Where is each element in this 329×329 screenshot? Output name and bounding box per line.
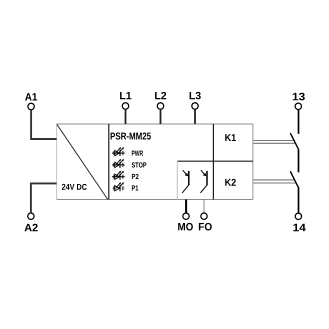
LED P2: [112, 171, 125, 180]
label 13: [293, 93, 305, 101]
terminal FO: [201, 213, 207, 219]
terminal A2: [28, 213, 34, 219]
wire L2 to box: [160, 109, 162, 124]
signal output box: [177, 161, 253, 199]
label P2: [132, 174, 139, 179]
label P1: [132, 185, 138, 190]
relay K1 label: [225, 134, 236, 141]
terminal MO: [183, 213, 189, 219]
terminal L2: [157, 103, 163, 109]
transistor output FO: [200, 170, 207, 193]
label L1: [120, 92, 131, 99]
label 14: [293, 224, 305, 231]
LED PWR: [112, 147, 125, 156]
wire between contacts: [298, 149, 300, 172]
contact K1 blade: [290, 133, 298, 149]
wire 13 to contact: [298, 110, 300, 134]
logic section right edge: [212, 124, 214, 200]
LED P1: [112, 182, 125, 191]
label PWR: [132, 151, 143, 156]
wire L3 to box: [194, 109, 196, 124]
label L3: [190, 92, 201, 99]
K2 linkage lines: [253, 180, 295, 183]
label A1: [25, 93, 37, 100]
wire contact to 14: [298, 187, 300, 213]
power supply diagonal: [57, 124, 108, 199]
label FO: [199, 223, 212, 231]
label PSR-MM25: [111, 133, 151, 140]
label 24V DC: [62, 184, 87, 190]
contact K2 blade: [290, 171, 298, 187]
K1 linkage lines: [253, 141, 295, 144]
terminal A1: [28, 103, 34, 109]
label MO: [178, 223, 193, 231]
terminal 14: [295, 213, 301, 219]
label STOP: [132, 162, 147, 167]
power section separator: [108, 124, 110, 200]
transistor output MO: [182, 170, 189, 193]
label A2: [25, 224, 38, 232]
terminal 13: [295, 103, 301, 109]
wire FO: [203, 200, 205, 213]
terminal L3: [192, 103, 198, 109]
relay K2 label: [225, 179, 236, 186]
wire MO: [185, 200, 187, 213]
wire A2 to box: [31, 183, 57, 212]
device box PSR-MM25 outline: [57, 124, 253, 200]
wire L1 to box: [125, 109, 127, 124]
label L2: [155, 92, 166, 99]
terminal L1: [122, 103, 128, 109]
LED STOP: [112, 159, 125, 168]
wire A1 to box: [31, 110, 56, 139]
